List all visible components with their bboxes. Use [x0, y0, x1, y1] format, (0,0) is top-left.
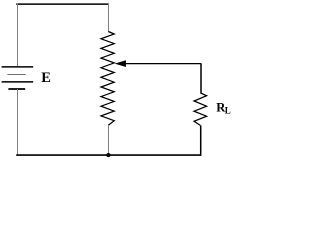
battery E: [2, 67, 34, 89]
wire top horizontal: [16, 3, 109, 5]
wire right vertical upper: [200, 64, 202, 94]
wire middle vertical upper: [108, 3, 110, 31]
wire middle vertical lower: [108, 125, 110, 155]
battery plate short bottom: [8, 88, 25, 90]
wire left vertical upper: [17, 3, 19, 66]
wire left vertical lower: [17, 89, 19, 156]
wiper arrow of potentiometer: [115, 60, 202, 67]
battery plate long top: [2, 66, 34, 68]
svg-text:E: E: [41, 70, 51, 86]
node junction dot: [106, 153, 110, 157]
svg-text:RL: RL: [216, 100, 231, 115]
wire bottom horizontal: [16, 154, 201, 156]
battery plate long lower: [2, 81, 34, 83]
wire right vertical lower: [200, 126, 202, 156]
battery plate short gray: [7, 74, 25, 76]
resistor RL: [194, 93, 207, 126]
potentiometer resistor (variable): [101, 32, 114, 126]
